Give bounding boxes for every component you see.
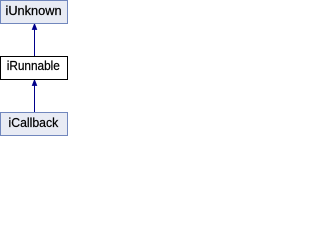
inheritance arrow iCallback -> iRunnable — [32, 80, 38, 112]
node iRunnable — [0, 56, 68, 80]
node iUnknown — [0, 0, 68, 24]
inheritance arrow iRunnable -> iUnknown — [32, 24, 38, 56]
node iCallback — [0, 112, 68, 136]
wire shaft 1 — [34, 29, 35, 56]
wire shaft 2 — [34, 85, 35, 112]
